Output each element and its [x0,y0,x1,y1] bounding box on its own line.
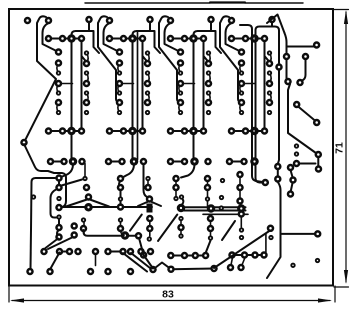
pad isolated br1 [291,264,294,267]
via on H3 x221 [220,206,223,209]
blob x149 [147,204,153,213]
pad module1 corner [22,140,27,145]
diag mid a [130,215,142,231]
junction pad 235 [122,233,127,238]
bus H5 [203,213,248,215]
arrow bottom of 71 dim [344,270,348,284]
trace pad A west riser [31,178,56,269]
diag C-to-59 [46,239,59,249]
col x120 lower [118,218,123,231]
pad arc x181 [178,195,183,210]
twin bus traces [240,25,279,183]
pad H5 x241 [239,212,244,217]
stub rowCD x95 [95,254,97,266]
circuit module 4 [220,16,275,133]
pad right sect b [286,79,291,84]
link runC-D b [242,258,245,266]
arrow left of 83 dim [10,298,24,302]
extension line bottom-left [8,286,10,302]
lambda pad x149 [147,197,152,202]
diag mid b [158,215,177,242]
pad bus end [277,65,282,70]
descender 143.5 [144,164,148,197]
diag rowE up [206,241,211,254]
pad isolated br2 [316,259,319,262]
dimension line 71 [345,12,347,282]
lambda trace x149 [138,201,161,206]
pad top-left [25,18,30,23]
pad big diag top [268,226,273,231]
pad twin end [263,180,268,185]
right section traces [278,33,319,168]
riser3 diag [50,253,60,270]
pad corner 169 [316,167,321,172]
bus m2 to col178 [181,164,195,178]
bus H mid [58,206,152,208]
pad row A [48,159,257,164]
extension line bottom-right [334,286,336,302]
pad right sect d [303,54,308,59]
junction H3 x211 [208,206,213,211]
ladder column x176 upper [174,176,179,200]
pad end 235 [136,233,141,238]
circuit module 1 [24,16,99,161]
bus m1 to col120 [123,164,135,178]
diag pair-to-C [48,238,72,250]
col x149 lower [147,216,152,241]
arrow right of 83 dim [318,298,332,302]
pad right sect c [314,43,319,48]
arrow top of 71 dim [344,10,348,24]
col x240 lower [240,216,243,239]
lambda pad x88 [86,195,91,200]
svg-text:83: 83 [162,289,174,301]
right descender [267,182,281,278]
pad diag end [316,152,321,157]
bus m0 to pad A [61,164,73,177]
diag ur a [222,221,235,240]
via column x222 [220,179,224,199]
trace from module1 corner [24,144,66,207]
col x209 lower [208,216,213,240]
pad pair x74 [72,224,77,238]
ladder column x240 upper [238,172,243,204]
extension line corner-right [334,286,349,288]
pad right sect f [294,102,299,107]
peak trace [267,15,285,34]
ladder column x207 upper [205,176,210,206]
extension line top-right [334,9,349,11]
pad G junction [86,205,91,210]
ladder column x148 upper [146,177,151,190]
pad row D [28,263,244,275]
second bus trace module 2 [137,33,139,160]
bus row 235 [84,230,139,236]
bus H4 [183,210,246,212]
pad F [57,205,62,210]
diag bundle 2 [131,253,150,268]
link runC-D a [231,258,233,266]
via on riser [32,195,35,198]
bus H3 [183,206,246,208]
col x181 lower [179,217,184,238]
circuit module 2 [98,16,160,161]
right mid pair [275,164,280,182]
right mid trio [288,165,296,197]
ladder column x59 [51,176,62,240]
svg-text:71: 71 [334,142,346,154]
pad right sect a [284,54,289,59]
pad stack [294,144,299,166]
diag rowC chain [139,238,153,269]
junction H3 x241 [239,206,244,211]
pad right sect g [314,120,319,125]
diag B to C [62,180,83,186]
pad right sect e [298,80,303,85]
pad on Hmid x120 [118,205,123,210]
lambda trace x88 [66,199,109,207]
col x88 lower [81,218,86,233]
circuit module 3 [159,16,221,161]
diag bundle 1 [123,253,147,272]
dimension line 83 [12,300,330,302]
ladder column x120 upper [118,176,123,205]
pad318 trace [281,231,321,236]
col x88 upper [83,164,89,191]
big diagonal [214,231,270,269]
scan artifact line [85,2,303,5]
link 120 to J [121,231,125,236]
via 271 [269,236,272,239]
pad row C [42,249,267,258]
vert runC up [265,234,267,252]
